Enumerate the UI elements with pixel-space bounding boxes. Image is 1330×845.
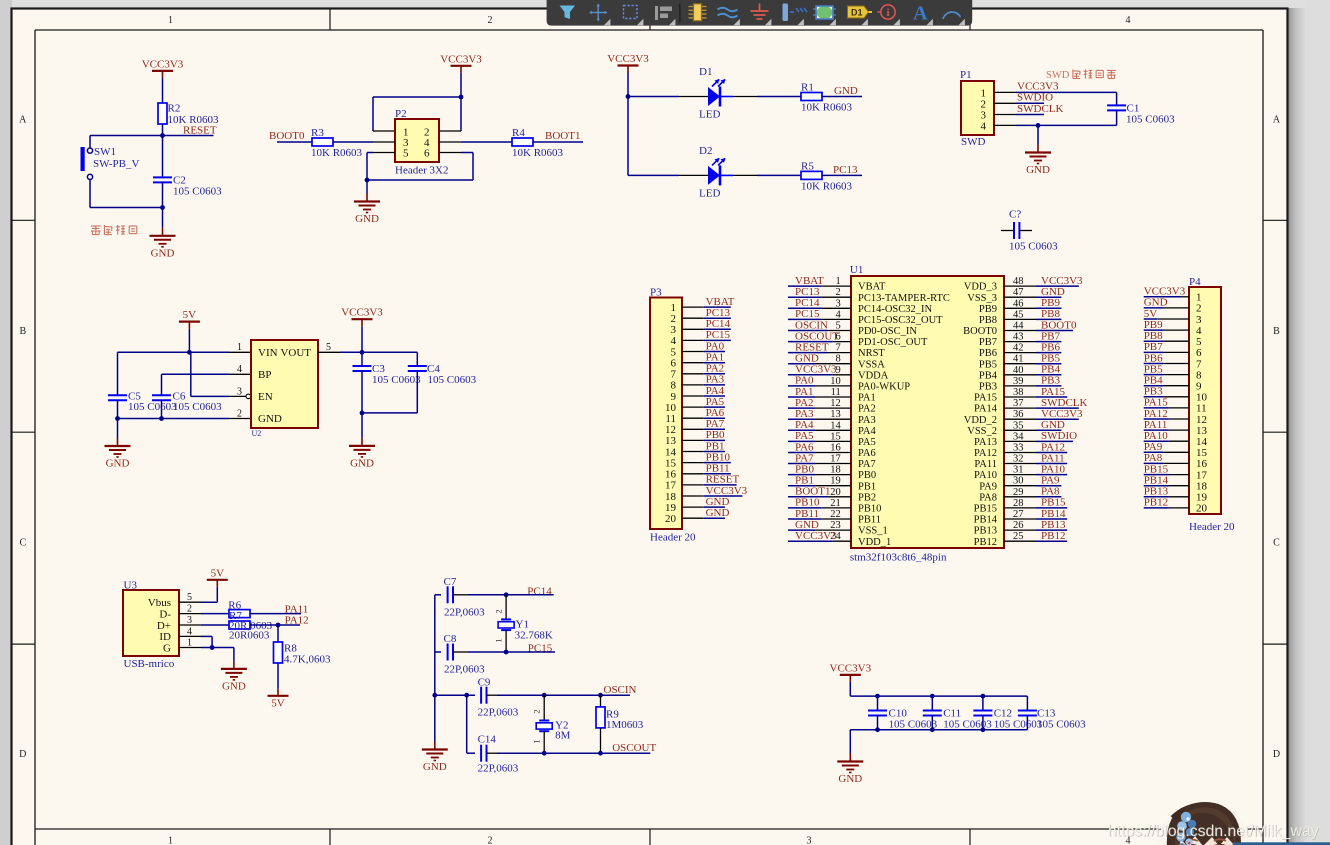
node P2 VCC junction [459, 95, 464, 100]
U1 pin 1 (VBAT) net VBAT [788, 275, 886, 293]
node C12 top junction [981, 694, 986, 699]
svg-text:PC15: PC15 [528, 643, 553, 655]
svg-text:SWDCLK: SWDCLK [1017, 103, 1064, 115]
svg-text:PA5: PA5 [858, 437, 876, 448]
U1 pin 37 (PA14) net SWDCLK [974, 397, 1087, 415]
wire GND rail to U2 GND [118, 418, 230, 420]
svg-text:PB2: PB2 [858, 492, 876, 503]
svg-text:G: G [163, 642, 171, 654]
svg-text:PA0: PA0 [706, 340, 725, 352]
svg-text:SWD: SWD [961, 136, 986, 148]
svg-text:2: 2 [494, 609, 504, 613]
svg-text:R4: R4 [512, 127, 525, 139]
P3 pin 12 net PA7 [665, 418, 725, 436]
svg-text:VSS_3: VSS_3 [967, 293, 997, 304]
P4 pin 8 net PB5 [1144, 363, 1202, 381]
U1 pin 5 (PD0-OSC_IN) net OSCIN [788, 319, 917, 337]
svg-text:35: 35 [1013, 420, 1024, 431]
svg-text:PD0-OSC_IN: PD0-OSC_IN [858, 326, 917, 337]
svg-text:PC14-OSC32_IN: PC14-OSC32_IN [858, 304, 933, 315]
svg-text:PB4: PB4 [979, 370, 998, 381]
svg-text:Vbus: Vbus [148, 597, 171, 609]
P4 pin 17 net PB15 [1144, 463, 1208, 481]
svg-text:27: 27 [1013, 509, 1024, 520]
svg-text:20: 20 [1196, 503, 1208, 515]
U1 pin 15 (PA5) net PA5 [788, 430, 876, 448]
svg-text:5: 5 [403, 148, 409, 160]
wire P2 pins 5,6 to GND [373, 152, 395, 154]
svg-text:20R0603: 20R0603 [229, 630, 270, 642]
node VOUT junction [360, 350, 365, 355]
svg-text:D: D [19, 749, 26, 760]
toolbar icon sheet symbol [816, 6, 833, 19]
svg-text:D2: D2 [699, 145, 712, 157]
svg-text:30: 30 [1013, 476, 1024, 487]
svg-text:28: 28 [1013, 498, 1024, 509]
wire VIN to U2 EN [190, 352, 192, 396]
svg-text:VDD_2: VDD_2 [964, 415, 997, 426]
P3 pin 19 net GND [665, 496, 729, 514]
svg-text:BOOT1: BOOT1 [545, 130, 580, 142]
svg-text:105 C0603: 105 C0603 [1126, 114, 1175, 126]
svg-text:PA8: PA8 [979, 492, 997, 503]
svg-text:13: 13 [830, 409, 841, 420]
P3 pin 18 net VCC3V3 [665, 485, 748, 503]
power 5V (R8 pull-up) [268, 695, 289, 697]
U1 pin 11 (PA1) net PA1 [788, 386, 876, 404]
U1 pin 19 (PB1) net PB1 [788, 475, 876, 493]
U1 pin 41 (PB5) net PB5 [979, 353, 1061, 371]
svg-text:6: 6 [424, 148, 430, 160]
P3 pin 16 net PB11 [665, 463, 731, 481]
svg-text:Header 3X2: Header 3X2 [395, 165, 448, 177]
wire P1 pin4 to GND and C1 [994, 124, 1016, 126]
node USB GND junction [210, 645, 215, 650]
svg-text:22: 22 [830, 509, 841, 520]
svg-text:PA14: PA14 [974, 404, 998, 415]
svg-text:PB7: PB7 [979, 337, 997, 348]
svg-text:PB8: PB8 [979, 315, 997, 326]
node Y2 bottom junction [542, 751, 547, 756]
resistor R4 [512, 138, 533, 146]
svg-text:41: 41 [1013, 354, 1024, 365]
U1 pin 18 (PB0) net PB0 [788, 463, 876, 481]
svg-text:VDD_1: VDD_1 [858, 537, 891, 548]
capacitor C13 [1026, 696, 1028, 710]
svg-text:VSS_1: VSS_1 [858, 526, 888, 537]
node C11 top junction [930, 694, 935, 699]
P4 pin 20 net PB12 [1144, 497, 1208, 515]
U1 pin 33 (PA12) net PA12 [974, 441, 1067, 459]
node C10 top junction [875, 694, 880, 699]
svg-text:https://blog.csdn.net/Milk_way: https://blog.csdn.net/Milk_way [1108, 823, 1319, 840]
svg-text:PB10: PB10 [706, 451, 731, 463]
svg-text:PA1: PA1 [858, 393, 876, 404]
svg-text:1: 1 [187, 637, 192, 648]
svg-text:40: 40 [1013, 365, 1024, 376]
U1 pin 35 (VSS_2) net GND [967, 419, 1065, 437]
ground (decoupling) [849, 741, 851, 754]
wire OSCOUT row [544, 752, 650, 754]
svg-text:PA3: PA3 [858, 415, 876, 426]
svg-text:BOOT0: BOOT0 [963, 326, 997, 337]
svg-text:PB12: PB12 [1041, 530, 1065, 542]
P4 pin 4 net PB9 [1144, 319, 1202, 337]
svg-text:PA4: PA4 [858, 426, 876, 437]
toolbar icon wire [718, 8, 738, 18]
P3 pin 4 net PC15 [671, 329, 731, 347]
U1 pin 8 (VSSA) net GND [788, 353, 885, 371]
svg-text:14: 14 [830, 420, 841, 431]
svg-text:GND: GND [258, 413, 282, 425]
P3 pin 5 net PA0 [671, 340, 726, 358]
svg-text:PB12: PB12 [974, 537, 997, 548]
ground (regulator output) [361, 413, 363, 438]
crystal Y1 [505, 595, 507, 620]
ground (P1) [1037, 125, 1039, 144]
U1 pin 13 (PA3) net PA3 [788, 408, 876, 426]
svg-text:105 C0603: 105 C0603 [128, 401, 177, 413]
U1 pin 6 (PD1-OSC_OUT) net OSCOUT [788, 330, 928, 348]
node C6 GND junction [159, 416, 164, 421]
regulator U2 [251, 340, 318, 428]
P4 pin 9 net PB4 [1144, 375, 1202, 393]
toolbar icon pin [783, 4, 789, 22]
svg-text:VIN: VIN [258, 347, 278, 359]
svg-text:OSCIN: OSCIN [604, 684, 637, 696]
resistor R5 [801, 171, 822, 179]
svg-text:PA9: PA9 [979, 481, 997, 492]
U1 pin 20 (PB2) net BOOT1 [788, 486, 876, 504]
svg-text:C?: C? [1009, 209, 1021, 221]
P4 pin 14 net PA10 [1144, 430, 1208, 448]
P4 pin 19 net PB13 [1144, 486, 1208, 504]
svg-text:U3: U3 [124, 580, 138, 592]
svg-text:GND: GND [222, 680, 246, 692]
U1 pin 29 (PA8) net PA8 [979, 486, 1061, 504]
P3 pin 13 net PB0 [665, 429, 725, 447]
svg-text:32.768K: 32.768K [515, 630, 553, 642]
svg-text:22P,0603: 22P,0603 [478, 706, 519, 718]
U1 pin 10 (PA0-WKUP) net PA0 [788, 375, 910, 393]
net label SWDCLK (P1 pin3) [994, 114, 1016, 116]
connector U3 USB-mrico [123, 590, 179, 656]
node PA12/R8 junction [276, 623, 281, 628]
connector P4 Header 20 body [1189, 287, 1221, 514]
svg-text:PA8: PA8 [1144, 452, 1163, 464]
wire VIN rail to C5 [118, 351, 190, 353]
svg-text:2: 2 [488, 836, 493, 845]
svg-text:A: A [1273, 115, 1281, 126]
U1 pin 16 (PA6) net PA6 [788, 441, 876, 459]
P4 pin 11 net PA15 [1144, 397, 1207, 415]
svg-text:LED: LED [699, 188, 720, 200]
svg-text:PB5: PB5 [979, 359, 997, 370]
U1 pin 4 (PC15-OSC32_OUT) net PC15 [788, 308, 943, 326]
svg-text:7: 7 [836, 343, 841, 354]
svg-text:USB-mrico: USB-mrico [124, 658, 175, 670]
node Y2 top junction [542, 693, 547, 698]
svg-text:VDDA: VDDA [858, 370, 889, 381]
P4 pin 12 net PA12 [1144, 408, 1207, 426]
svg-text:37: 37 [1013, 398, 1024, 409]
U1 pin 24 (VDD_1) net VCC3V3 [788, 530, 891, 548]
svg-text:1: 1 [168, 836, 173, 845]
net label PC13 (R5) [822, 174, 862, 176]
toolbar separator [679, 4, 681, 23]
caption reset circuit (Chinese) [91, 225, 101, 227]
svg-text:i: i [886, 7, 889, 19]
svg-text:25: 25 [1013, 531, 1024, 542]
node Y1 top junction [504, 592, 509, 597]
svg-text:GND: GND [834, 85, 858, 97]
wire VCC down to D2 [627, 97, 629, 176]
svg-text:GND: GND [350, 457, 374, 469]
toolbar icon filter [560, 6, 576, 20]
svg-text:R2: R2 [168, 103, 181, 115]
node C10 bottom junction [875, 727, 880, 732]
svg-text:D1: D1 [699, 66, 712, 78]
toolbar icon no-ERC [881, 5, 895, 19]
U1 pin 22 (PB11) net PB11 [788, 508, 881, 526]
ground (USB) [233, 648, 235, 661]
P4 pin 10 net PB3 [1144, 386, 1208, 404]
svg-text:OSCOUT: OSCOUT [612, 742, 656, 754]
wire R3 to P2 pin 3 [333, 141, 373, 143]
U1 pin 3 (PC14-OSC32_IN) net PC14 [788, 297, 933, 315]
svg-text:R5: R5 [801, 160, 814, 172]
node C11 bottom junction [930, 727, 935, 732]
svg-text:45: 45 [1013, 309, 1024, 320]
U1 pin 46 (PB9) net PB9 [979, 297, 1061, 315]
svg-text:C9: C9 [478, 677, 491, 689]
wire 5V to U2 VIN [189, 351, 229, 353]
svg-text:3: 3 [836, 298, 841, 309]
svg-text:PA0-WKUP: PA0-WKUP [858, 382, 910, 393]
svg-text:PB11: PB11 [858, 515, 881, 526]
svg-text:P3: P3 [650, 287, 662, 299]
svg-text:GND: GND [151, 247, 175, 259]
svg-text:4: 4 [981, 121, 987, 133]
U1 pin 38 (PA15) net PA15 [974, 386, 1067, 404]
node C3 GND junction [360, 411, 365, 416]
P4 pin 13 net PA11 [1144, 419, 1208, 437]
svg-text:21: 21 [830, 498, 841, 509]
wire U2 VOUT to VCC3V3 [318, 351, 340, 353]
svg-text:BP: BP [258, 369, 271, 381]
wire OSCIN row [544, 694, 630, 696]
svg-text:SWD: SWD [1046, 70, 1070, 81]
svg-text:A: A [913, 3, 928, 25]
svg-text:PC13: PC13 [833, 164, 858, 176]
U1 pin 43 (PB7) net PB7 [979, 330, 1061, 348]
wire R7 to PA12 [250, 624, 300, 626]
svg-text:PC14: PC14 [527, 586, 552, 598]
svg-text:15: 15 [665, 457, 677, 469]
crystal Y2 [543, 695, 545, 720]
svg-text:EN: EN [258, 391, 273, 403]
svg-text:PA11: PA11 [974, 459, 997, 470]
svg-text:SWDIO: SWDIO [1017, 92, 1053, 104]
svg-text:105 C0603: 105 C0603 [428, 374, 477, 386]
resistor R7 [229, 621, 250, 629]
svg-text:5V: 5V [211, 567, 225, 579]
U1 pin 31 (PA10) net PA10 [974, 463, 1067, 481]
svg-text:U1: U1 [850, 264, 863, 276]
node C5 GND junction [115, 416, 120, 421]
svg-text:18: 18 [830, 465, 841, 476]
U1 pin 27 (PB14) net PB14 [974, 508, 1068, 526]
svg-text:12: 12 [830, 398, 841, 409]
svg-text:29: 29 [1013, 487, 1024, 498]
svg-text:PA13: PA13 [974, 437, 997, 448]
resistor R9 [600, 695, 602, 707]
svg-text:PA6: PA6 [858, 448, 876, 459]
svg-text:105 C0603: 105 C0603 [1037, 718, 1086, 730]
P3 pin 17 net RESET [665, 474, 739, 492]
svg-text:8M: 8M [555, 730, 571, 742]
P3 pin 15 net PB10 [665, 451, 731, 469]
ground (P2) [366, 180, 368, 194]
resistor R8 [277, 625, 279, 642]
application toolbar [547, 0, 973, 26]
U1 pin 25 (PB12) net PB12 [974, 530, 1068, 548]
svg-text:19: 19 [830, 476, 841, 487]
U1 pin 39 (PB3) net PB3 [979, 375, 1061, 393]
svg-text:A: A [19, 115, 27, 126]
svg-text:PB15: PB15 [974, 504, 997, 515]
svg-text:105 C0603: 105 C0603 [173, 401, 222, 413]
svg-text:GND: GND [838, 773, 862, 785]
P3 pin 10 net PA5 [665, 396, 725, 414]
P3 pin 2 net PC13 [671, 307, 731, 325]
svg-text:R3: R3 [311, 127, 324, 139]
svg-text:2: 2 [836, 287, 841, 298]
U1 pin 12 (PA2) net PA2 [788, 397, 876, 415]
svg-text:PB10: PB10 [858, 504, 881, 515]
svg-text:1: 1 [532, 739, 542, 743]
U1 pin 9 (VDDA) net VCC3V3 [788, 364, 889, 382]
svg-text:31: 31 [1013, 465, 1024, 476]
svg-text:5: 5 [326, 342, 331, 353]
wire gnd rail to C9 [435, 694, 475, 696]
wire U3 G to GND [179, 647, 201, 649]
toolbar icon part [689, 7, 707, 18]
U1 pin 42 (PB6) net PB6 [979, 341, 1061, 359]
U1 pin 14 (PA4) net PA4 [788, 419, 876, 437]
wire R6 to PA11 [250, 613, 301, 615]
svg-text:1: 1 [836, 276, 841, 287]
svg-text:5: 5 [671, 346, 677, 358]
node C14 branch junction [464, 693, 469, 698]
wire RESET to SW1 [90, 135, 163, 137]
svg-text:BOOT0: BOOT0 [269, 130, 305, 142]
wire D1 to R1 [720, 96, 733, 98]
svg-text:10K R0603: 10K R0603 [512, 147, 564, 159]
node P1 GND junction [1036, 123, 1041, 128]
node C2/SW1 junction [160, 205, 165, 210]
svg-text:C: C [1273, 538, 1280, 549]
svg-text:4.7K,0603: 4.7K,0603 [284, 653, 331, 665]
ground (reset circuit) [162, 208, 164, 228]
svg-text:3: 3 [187, 615, 192, 626]
capacitor C11 [931, 696, 933, 710]
U1 pin 17 (PA7) net PA7 [788, 452, 876, 470]
svg-text:GND: GND [423, 761, 447, 773]
svg-text:44: 44 [1013, 321, 1024, 332]
svg-text:16: 16 [1196, 458, 1208, 470]
svg-text:VCC3V3: VCC3V3 [142, 58, 184, 70]
node R9 bottom junction [598, 751, 603, 756]
U1 pin 26 (PB13) net PB13 [974, 519, 1068, 537]
svg-text:PC13-TAMPER-RTC: PC13-TAMPER-RTC [858, 293, 950, 304]
wire U3 ID to G [179, 635, 201, 637]
U1 pin 2 (PC13-TAMPER-RTC) net PC13 [788, 286, 950, 304]
svg-text:VSS_2: VSS_2 [967, 426, 997, 437]
svg-text:22P,0603: 22P,0603 [444, 606, 485, 618]
svg-text:VCC3V3: VCC3V3 [440, 53, 482, 65]
svg-text:5: 5 [187, 592, 192, 603]
U1 pin 30 (PA9) net PA9 [979, 475, 1061, 493]
P3 pin 20 net GND [665, 507, 729, 525]
net label BOOT1 [533, 141, 583, 143]
svg-text:39: 39 [1013, 376, 1024, 387]
svg-text:3: 3 [807, 836, 812, 845]
node RESET junction [160, 133, 165, 138]
svg-text:D+: D+ [157, 620, 171, 632]
svg-text:PB12: PB12 [1144, 497, 1168, 509]
svg-text:PB6: PB6 [979, 348, 997, 359]
svg-text:NRST: NRST [858, 348, 885, 359]
U1 pin 23 (VSS_1) net GND [788, 519, 888, 537]
svg-text:47: 47 [1013, 287, 1024, 298]
toolbar icon gnd port [751, 4, 769, 20]
capacitor C3 [361, 352, 363, 366]
svg-text:VBAT: VBAT [858, 282, 886, 293]
svg-text:2: 2 [532, 709, 542, 713]
resistor R1 [801, 93, 822, 101]
svg-text:15: 15 [830, 431, 841, 442]
toolbar icon align [655, 6, 672, 20]
svg-text:B: B [1273, 326, 1280, 337]
svg-text:VOUT: VOUT [280, 347, 311, 359]
LED D2 [708, 166, 720, 185]
P4 pin 5 net PB8 [1144, 330, 1202, 348]
svg-text:PB8: PB8 [1144, 330, 1163, 342]
svg-text:PB9: PB9 [979, 304, 997, 315]
capacitor C10 [877, 696, 879, 710]
svg-text:1M0603: 1M0603 [606, 719, 644, 731]
connector P1 SWD [961, 81, 994, 135]
U1 pin 28 (PB15) net PB15 [974, 497, 1068, 515]
P4 pin 16 net PA8 [1144, 452, 1208, 470]
node crystal rail corner [432, 693, 437, 698]
svg-text:VCC3V3: VCC3V3 [830, 662, 872, 674]
resistor R3 [312, 138, 333, 146]
connector P3 Header 20 body [650, 298, 682, 530]
svg-text:5V: 5V [183, 309, 197, 321]
svg-text:5V: 5V [271, 697, 285, 709]
P3 pin 11 net PA6 [665, 407, 725, 425]
net label VCC3V3 (P1 pin1) [994, 91, 1016, 93]
wire C4 to GND rail [362, 412, 417, 414]
svg-text:38: 38 [1013, 387, 1024, 398]
P4 pin 18 net PB14 [1144, 475, 1208, 493]
svg-text:U2: U2 [252, 429, 262, 438]
svg-text:22P,0603: 22P,0603 [478, 763, 519, 775]
U1 pin 40 (PB4) net PB4 [979, 364, 1061, 382]
svg-text:SW-PB_V: SW-PB_V [93, 158, 140, 170]
